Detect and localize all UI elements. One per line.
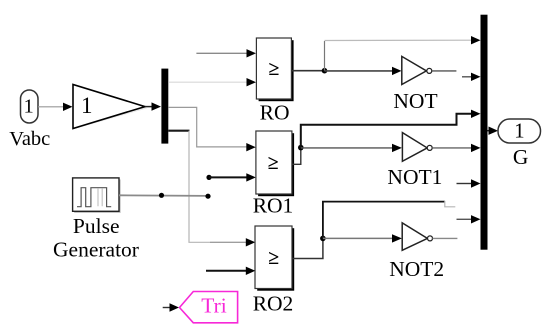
arrowhead NOT2 input [392,234,402,242]
junction dot C [206,175,211,180]
arrowhead mux in5 [471,179,481,187]
demux bar [161,69,168,144]
wire to RO1 in2 [209,176,247,178]
arrowhead mux in6 [471,215,481,223]
wire RO branch up [324,41,326,71]
wire to Tri tag [163,307,171,309]
outport G [498,118,541,143]
NOT2 gate [402,223,432,250]
arrowhead NOT input [392,67,402,75]
junction dot B [205,194,210,199]
NOT1 gate [402,133,432,162]
wire NOT2 output [433,237,458,239]
wire vertical to RO2 in1 [189,131,247,243]
wire RO2 in1 horizontal [210,241,247,243]
svg-text:≥: ≥ [268,152,279,174]
svg-text:Pulse: Pulse [73,214,120,238]
arrowhead into demux [152,102,162,110]
wire mux to outport [488,130,490,132]
svg-text:≥: ≥ [269,58,280,80]
NOT gate [402,56,432,84]
svg-text:RO1: RO1 [253,194,294,218]
junction dot RO out [322,68,328,74]
wire NOT1 output to mux [432,147,471,149]
wire demux tap1 to RO in2 [168,81,247,83]
goto tag Tri [180,292,238,323]
relational operator RO1 [256,131,294,196]
arrowhead RO2 in2 [246,267,256,275]
svg-text:Generator: Generator [53,238,139,262]
wire pulse generator output [119,194,208,197]
arrowhead outport G [489,127,499,135]
arrowhead mux in1 [471,36,481,44]
svg-text:1: 1 [81,93,93,118]
svg-text:1: 1 [514,118,525,142]
wire RO to NOT [325,70,393,72]
wire mux in5 stub [457,183,472,185]
wire demux tap3 stub [168,130,189,132]
wire RO1 output elbow [292,148,301,165]
wire RO2 in2 [206,270,247,272]
wire mux in2 stub [462,76,472,78]
wire RO1 to NOT1 [301,147,392,149]
wire inport to gain [38,106,64,108]
relational operator RO [256,38,293,101]
svg-text:G: G [513,145,529,169]
arrowhead RO in1 [247,49,257,57]
arrowhead NOT1 input [392,144,402,152]
wire RO2 branch jog [445,201,456,207]
svg-text:1: 1 [23,96,33,118]
junction dot RO2 out [320,236,326,242]
svg-text:Vabc: Vabc [9,128,50,150]
arrowhead RO1 in1 [246,143,256,151]
svg-text:NOT: NOT [393,89,437,113]
arrowhead into gain [63,103,73,111]
relational operator RO2 [255,226,294,291]
junction dot A [159,193,164,198]
arrowhead RO in2 [247,78,257,86]
arrowhead Tri input [170,303,180,311]
svg-text:NOT1: NOT1 [387,165,442,189]
svg-text:Tri: Tri [201,294,227,318]
gain K1 triangle [73,85,148,129]
svg-text:RO2: RO2 [253,291,294,315]
wire RO output [291,70,324,72]
svg-text:≥: ≥ [268,247,279,269]
inport Vabc [21,90,39,123]
wire RO in1 [196,52,247,54]
wire gain to demux [145,106,153,108]
mux bar [481,15,488,250]
wire mux in6 stub [457,218,472,220]
wire RO1 branch to mux [301,114,472,148]
svg-text:RO: RO [260,100,290,124]
wire RO2 output elbow [292,238,323,258]
wire RO2 branch to mux [323,202,445,239]
svg-text:NOT2: NOT2 [389,257,444,281]
wire RO2 to NOT2 [323,237,392,239]
wire RO branch to mux [325,39,472,41]
arrowhead mux in4 [471,144,481,152]
pulse generator block [73,178,121,213]
junction dot RO1 out [298,145,304,151]
arrowhead RO2 in1 [246,238,256,246]
wire demux tap2 to RO1 in1 [168,107,247,146]
arrowhead mux in2 [471,73,481,81]
arrowhead mux in3 [471,110,481,118]
arrowhead RO1 in2 [246,173,256,181]
wire NOT output [432,70,457,72]
